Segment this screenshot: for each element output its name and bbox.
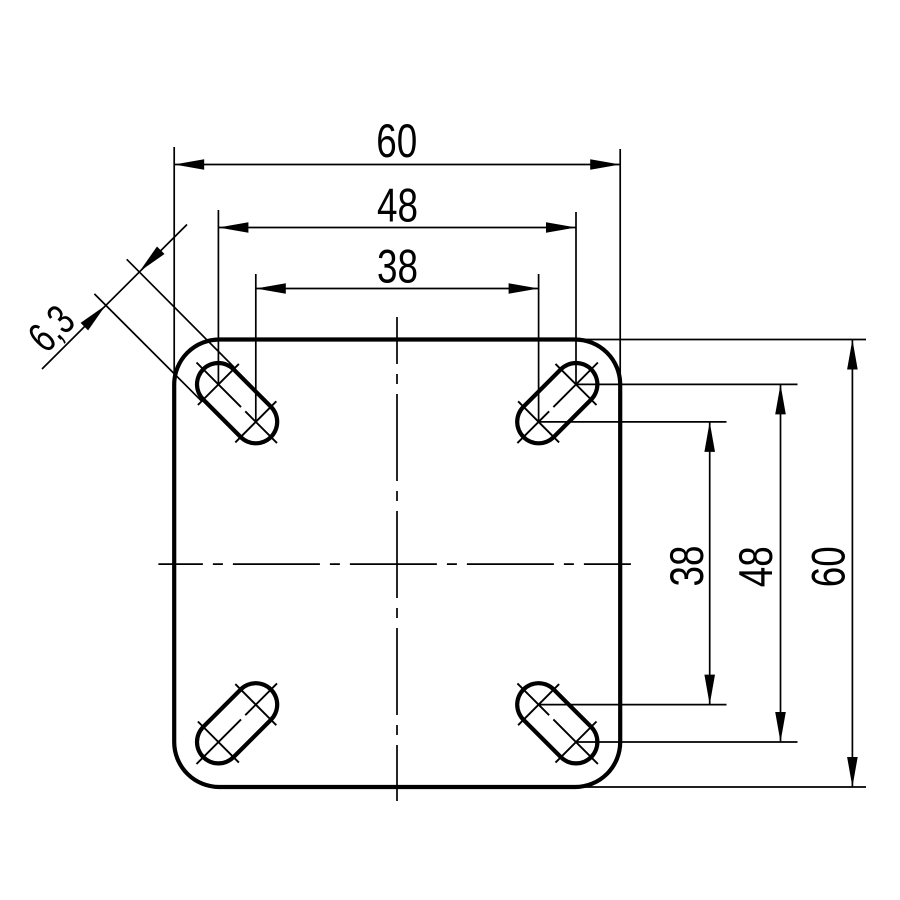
mounting plate outline bbox=[174, 340, 620, 788]
slot BL inner centre tick bbox=[235, 684, 276, 725]
svg-text:48: 48 bbox=[377, 179, 418, 232]
extension line 48 top-right bbox=[575, 212, 577, 384]
dimension line 60 (right) bbox=[851, 340, 853, 788]
arrowhead 6,3 lower bbox=[81, 305, 106, 330]
dimension line 48 (top) bbox=[218, 227, 576, 229]
arrowhead 6,3 upper bbox=[140, 247, 165, 272]
slot BR axis centerline bbox=[517, 683, 598, 764]
svg-text:60: 60 bbox=[376, 114, 417, 167]
dimension line 6,3 (slot width, diagonal) bbox=[42, 225, 187, 370]
slot TR axis centerline bbox=[517, 363, 598, 444]
dimension line 38 (top) bbox=[256, 288, 539, 290]
dimension line 48 (right) bbox=[780, 384, 782, 742]
extension line 60 top-left bbox=[173, 147, 175, 390]
extension line 38 top-left bbox=[255, 274, 257, 422]
svg-text:60: 60 bbox=[801, 546, 854, 587]
slot TL inner centre tick bbox=[235, 401, 276, 442]
extension line 38 top-right bbox=[538, 274, 540, 422]
slot BL outer centre tick bbox=[198, 722, 239, 763]
dimension line 38 (right) bbox=[709, 422, 711, 705]
svg-text:38: 38 bbox=[660, 546, 713, 587]
extension line 38 right-lower bbox=[539, 704, 727, 706]
arrowhead right 38 bbox=[509, 283, 539, 294]
extension line 60 right-upper bbox=[575, 339, 866, 341]
svg-text:48: 48 bbox=[729, 546, 782, 587]
slot TR inner centre tick bbox=[518, 401, 559, 442]
extension line 38 right-upper bbox=[539, 421, 727, 423]
arrowhead left 38 bbox=[256, 283, 286, 294]
extension line 48 right-upper bbox=[576, 383, 798, 385]
extension line 6,3 upper bbox=[127, 259, 235, 368]
arrowhead top 48 bbox=[775, 384, 786, 414]
extension line 6,3 lower bbox=[94, 294, 201, 401]
slot TR outline bbox=[539, 384, 576, 422]
arrowhead bottom 48 bbox=[775, 712, 786, 742]
slot BR outer centre tick bbox=[556, 722, 597, 763]
slot TL axis centerline bbox=[197, 363, 278, 444]
extension line 48 right-lower bbox=[576, 741, 798, 743]
arrowhead top 60 bbox=[847, 340, 858, 370]
extension line 60 right-lower bbox=[575, 786, 866, 788]
arrowhead bottom 60 bbox=[847, 757, 858, 787]
slot TL outline bbox=[218, 384, 255, 422]
slot BR outline bbox=[539, 705, 576, 742]
arrowhead left 48 bbox=[218, 222, 248, 233]
arrowhead bottom 38 bbox=[704, 675, 715, 705]
vertical centreline bbox=[396, 317, 398, 801]
dimension line 60 (top) bbox=[174, 164, 620, 166]
arrowhead right 48 bbox=[546, 222, 576, 233]
slot BL axis centerline bbox=[197, 683, 278, 764]
svg-text:38: 38 bbox=[377, 240, 418, 293]
extension line 48 top-left bbox=[217, 210, 219, 384]
extension line 60 top-right bbox=[619, 149, 621, 385]
arrowhead right 60 bbox=[590, 159, 620, 170]
slot TR outer centre tick bbox=[556, 364, 597, 405]
slot BR inner centre tick bbox=[518, 684, 559, 725]
slot TL outer centre tick bbox=[198, 364, 239, 405]
arrowhead left 60 bbox=[174, 159, 204, 170]
horizontal centreline bbox=[158, 563, 631, 565]
slot BL outline bbox=[218, 705, 255, 742]
arrowhead top 38 bbox=[704, 422, 715, 452]
